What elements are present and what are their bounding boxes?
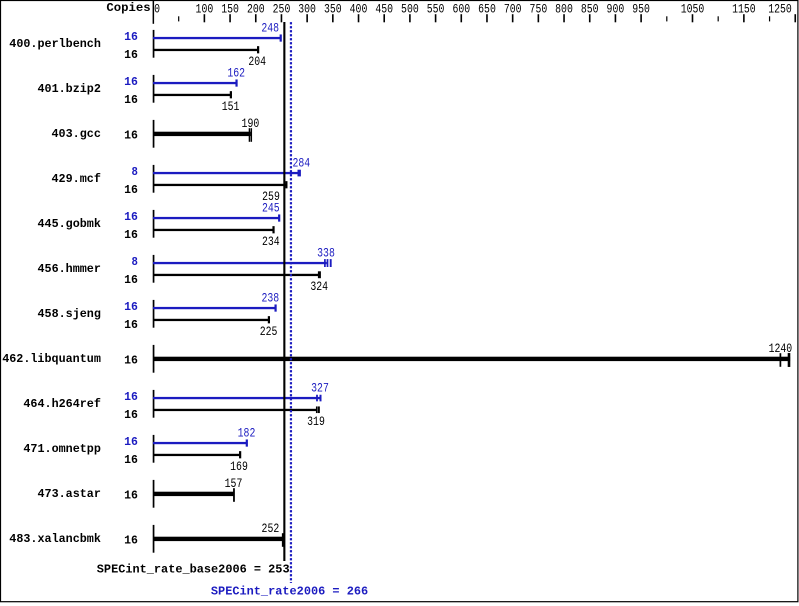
svg-text:234: 234 [262,234,280,249]
svg-text:200: 200 [247,1,265,16]
group 464.h264ref [23,381,328,429]
svg-text:8: 8 [132,165,138,179]
svg-text:150: 150 [221,1,239,16]
svg-text:16: 16 [124,534,138,548]
svg-text:327: 327 [311,381,329,396]
group 473.astar [38,476,243,508]
svg-text:800: 800 [555,1,573,16]
peak median dotted line 266 [290,22,292,583]
svg-text:248: 248 [261,21,279,36]
svg-text:16: 16 [124,435,138,449]
svg-text:16: 16 [124,318,138,332]
svg-text:550: 550 [427,1,445,16]
svg-text:403.gcc: 403.gcc [52,127,101,141]
svg-text:400: 400 [350,1,368,16]
svg-text:151: 151 [222,99,240,114]
group 458.sjeng [38,291,280,339]
svg-text:16: 16 [124,273,138,287]
svg-text:16: 16 [124,300,138,314]
group 483.xalancbmk [9,521,283,553]
svg-text:16: 16 [124,228,138,242]
svg-text:450: 450 [375,1,393,16]
svg-text:16: 16 [124,129,138,143]
svg-text:16: 16 [124,408,138,422]
svg-text:456.hmmer: 456.hmmer [38,262,101,276]
svg-text:238: 238 [261,291,279,306]
svg-text:429.mcf: 429.mcf [52,172,101,186]
svg-text:324: 324 [310,279,328,294]
svg-text:100: 100 [196,1,214,16]
svg-text:900: 900 [607,1,625,16]
svg-text:350: 350 [324,1,342,16]
svg-text:252: 252 [262,521,280,536]
svg-text:464.h264ref: 464.h264ref [23,397,101,411]
svg-text:284: 284 [292,156,310,171]
svg-text:400.perlbench: 400.perlbench [9,37,101,51]
group 462.libquantum [2,341,792,373]
svg-text:SPECint_rate_base2006 = 253: SPECint_rate_base2006 = 253 [97,563,290,577]
svg-text:16: 16 [124,48,138,62]
group 456.hmmer [38,246,335,294]
svg-text:1150: 1150 [732,1,756,16]
base median line 253 [283,22,285,561]
svg-text:0: 0 [154,1,160,16]
svg-text:8: 8 [132,255,138,269]
group 400.perlbench [9,21,282,69]
svg-text:16: 16 [124,93,138,107]
svg-text:16: 16 [124,354,138,368]
svg-text:157: 157 [225,476,243,491]
svg-text:1050: 1050 [681,1,705,16]
svg-text:16: 16 [124,183,138,197]
svg-text:319: 319 [307,414,325,429]
svg-text:471.omnetpp: 471.omnetpp [23,442,101,456]
group 403.gcc [52,116,260,148]
svg-text:462.libquantum: 462.libquantum [2,352,101,366]
svg-text:16: 16 [124,489,138,503]
svg-text:16: 16 [124,210,138,224]
svg-text:SPECint_rate2006 = 266: SPECint_rate2006 = 266 [211,584,368,598]
svg-text:250: 250 [273,1,291,16]
svg-text:473.astar: 473.astar [38,487,101,501]
svg-text:401.bzip2: 401.bzip2 [38,82,101,96]
svg-text:1240: 1240 [769,341,793,356]
svg-text:338: 338 [317,246,335,261]
svg-text:500: 500 [401,1,419,16]
group 445.gobmk [38,201,281,249]
svg-text:445.gobmk: 445.gobmk [38,217,101,231]
svg-text:190: 190 [242,116,260,131]
svg-text:483.xalancbmk: 483.xalancbmk [9,532,101,546]
svg-text:182: 182 [238,426,256,441]
svg-text:162: 162 [227,66,245,81]
svg-text:650: 650 [478,1,496,16]
group 471.omnetpp [23,426,255,474]
group 401.bzip2 [38,66,246,114]
svg-text:225: 225 [260,324,278,339]
x axis origin line [153,1,155,24]
x axis scale labels and ticks [154,1,796,22]
svg-text:1250: 1250 [768,1,792,16]
svg-text:600: 600 [452,1,470,16]
svg-text:458.sjeng: 458.sjeng [38,307,101,321]
svg-text:750: 750 [530,1,548,16]
svg-text:950: 950 [632,1,650,16]
svg-text:Copies: Copies [106,1,150,15]
svg-text:16: 16 [124,453,138,467]
svg-text:300: 300 [298,1,316,16]
svg-text:204: 204 [248,54,266,69]
svg-text:16: 16 [124,390,138,404]
svg-text:700: 700 [504,1,522,16]
svg-text:850: 850 [581,1,599,16]
svg-text:16: 16 [124,75,138,89]
svg-text:16: 16 [124,30,138,44]
svg-text:169: 169 [230,459,248,474]
svg-text:245: 245 [262,201,280,216]
group 429.mcf [52,156,311,204]
